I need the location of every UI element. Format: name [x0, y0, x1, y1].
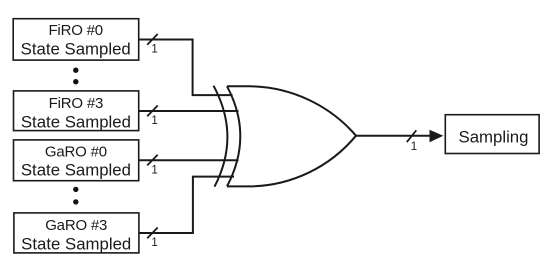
bus slash on GaRO #0 wire — [147, 155, 158, 166]
svg-text:FiRO #0: FiRO #0 — [48, 22, 102, 39]
wire from GaRO #3 to XOR input 4 — [139, 177, 234, 233]
svg-text:1: 1 — [151, 164, 157, 176]
svg-text:1: 1 — [151, 237, 157, 249]
svg-text:FiRO #3: FiRO #3 — [49, 95, 103, 112]
svg-text:1: 1 — [411, 141, 417, 153]
box GaRO #0 — [14, 140, 139, 181]
bus slash on output wire — [407, 130, 417, 142]
bus slash on GaRO #3 wire — [147, 228, 158, 239]
box GaRO #3 — [14, 213, 139, 254]
XOR gate U1 input arc (outer) — [214, 86, 228, 187]
ellipsis dots between GaRO boxes — [73, 187, 78, 205]
wire from FiRO #0 to XOR input 1 — [139, 40, 233, 96]
svg-text:Sampling: Sampling — [459, 127, 529, 146]
box Sampling — [445, 115, 539, 154]
output wire from XOR to Sampling — [356, 135, 431, 137]
svg-text:State Sampled: State Sampled — [21, 161, 131, 180]
svg-text:GaRO #3: GaRO #3 — [45, 217, 107, 234]
bus slash on FiRO #3 wire — [147, 106, 158, 117]
svg-text:1: 1 — [151, 115, 157, 127]
XOR gate U1 body — [227, 86, 356, 186]
svg-text:GaRO #0: GaRO #0 — [45, 143, 107, 160]
svg-text:1: 1 — [151, 44, 157, 56]
svg-text:State Sampled: State Sampled — [21, 234, 131, 253]
svg-text:State Sampled: State Sampled — [21, 39, 131, 58]
ellipsis dots between FiRO boxes — [73, 68, 78, 85]
bus slash on FiRO #0 wire — [147, 34, 158, 45]
svg-text:State Sampled: State Sampled — [21, 113, 131, 132]
wire from FiRO #3 to XOR input 2 — [139, 110, 239, 112]
box FiRO #3 — [14, 91, 139, 132]
wire from GaRO #0 to XOR input 3 — [139, 159, 239, 161]
box FiRO #0 — [13, 19, 139, 60]
arrowhead into Sampling box — [430, 130, 444, 143]
